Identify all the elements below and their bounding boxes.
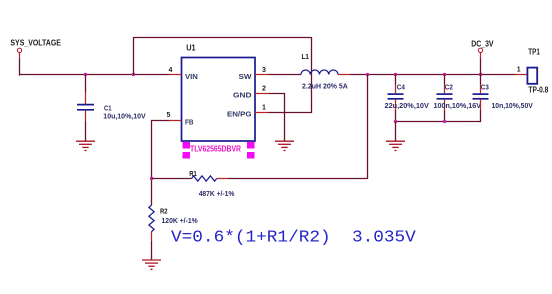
ground U1 GND: [275, 141, 294, 150]
pin label EN/PG: [227, 109, 252, 118]
wire DC_3V drop: [480, 59, 482, 75]
svg-text:1: 1: [517, 66, 521, 73]
wire EN/PG to riser: [269, 112, 313, 114]
svg-text:SW: SW: [239, 72, 253, 81]
SYS_VOLTAGE off-page terminal: [17, 48, 21, 58]
value label TP-0.8: [528, 86, 548, 95]
pin label FB: [185, 117, 194, 126]
svg-text:V=0.6*(1+R1/R2) 3.035V: V=0.6*(1+R1/R2) 3.035V: [171, 227, 416, 246]
svg-text:5: 5: [167, 112, 171, 119]
value label C2: [434, 83, 482, 110]
svg-text:120K +/-1%: 120K +/-1%: [162, 216, 198, 225]
wire GND pin to ground: [269, 94, 285, 142]
wire divider to R1: [152, 178, 192, 180]
label R2: [160, 207, 168, 216]
wire capacitor bottom bus: [396, 121, 482, 123]
wire C1 upper lead: [85, 75, 87, 105]
wire C2 upper lead: [444, 75, 446, 94]
wire SYS_VOLTAGE to VIN: [19, 74, 169, 76]
value label L1: [302, 82, 348, 91]
svg-text:U1: U1: [186, 44, 196, 53]
ground capacitor bus: [386, 141, 405, 150]
pin 1 stub EN/PG: [255, 112, 269, 114]
node junction C2 bottom: [443, 120, 446, 123]
DC_3V off-page terminal: [478, 48, 482, 58]
svg-text:100n,10%,16V: 100n,10%,16V: [434, 101, 482, 110]
value label C4: [385, 83, 429, 110]
wire R1 to feedback riser: [228, 178, 368, 180]
pin 4 stub VIN: [169, 74, 182, 76]
op-amp U1 body: [182, 58, 256, 142]
value label R1: [199, 189, 235, 198]
ground C1: [76, 141, 95, 150]
pin 2 stub GND: [255, 93, 269, 95]
pin number 2: [262, 85, 266, 92]
wire feedback riser: [367, 75, 369, 180]
wire C1 lower lead: [85, 111, 87, 141]
svg-text:C2: C2: [445, 83, 453, 92]
svg-text:C3: C3: [481, 83, 489, 92]
node SYS_VOLTAGE label: [10, 39, 61, 48]
node junction DC_3V tap: [479, 73, 482, 76]
capacitor C2: [437, 94, 453, 99]
wire C4 lower lead: [395, 100, 397, 122]
svg-text:C4: C4: [397, 83, 406, 92]
node DC_3V label: [471, 40, 494, 49]
wire L1 right stub: [338, 74, 350, 76]
wire C3 lower lead: [480, 100, 482, 122]
wire C3 upper lead: [480, 75, 482, 94]
footprint pad U1 top-left: [183, 142, 191, 149]
resistor R1: [192, 176, 217, 181]
node junction C4 bottom: [394, 120, 397, 123]
footprint pad U1 top-right: [247, 142, 255, 149]
node junction R1/R2: [150, 177, 153, 180]
node junction C1 tap: [84, 73, 87, 76]
svg-text:3: 3: [262, 67, 266, 74]
wire to TP1: [515, 74, 527, 76]
pin number 3: [262, 67, 266, 74]
wire riser VIN to top loop: [133, 37, 135, 75]
node junction R1 feedback tap: [366, 73, 369, 76]
svg-text:GND: GND: [233, 90, 252, 99]
label TP1: [528, 48, 540, 57]
svg-text:487K +/-1%: 487K +/-1%: [199, 189, 235, 198]
node junction C4 tap: [394, 73, 397, 76]
svg-text:SYS_VOLTAGE: SYS_VOLTAGE: [10, 39, 61, 48]
wire R2 lower stub: [151, 231, 153, 241]
wire bus to ground: [395, 122, 397, 142]
svg-text:TLV62565DBVR: TLV62565DBVR: [190, 145, 241, 154]
value label C3: [481, 83, 533, 110]
wire SW to L1: [269, 74, 302, 76]
footprint name TLV62565DBVR: [190, 145, 241, 154]
node junction top-loop tap: [132, 73, 135, 76]
capacitor C1: [77, 105, 94, 110]
svg-text:2.2uH 20% 5A: 2.2uH 20% 5A: [302, 82, 348, 91]
wire SYS_VOLTAGE vertical drop: [19, 59, 22, 76]
pin number 5: [167, 112, 171, 119]
svg-text:L1: L1: [302, 52, 309, 61]
svg-text:R2: R2: [160, 207, 168, 216]
wire output net: [350, 74, 515, 76]
svg-text:TP-0.8: TP-0.8: [528, 86, 548, 95]
pin number 1 TP1: [517, 66, 521, 73]
svg-text:TP1: TP1: [528, 48, 540, 57]
formula annotation: [171, 227, 416, 246]
label U1: [186, 44, 196, 53]
svg-text:10u,10%,10V: 10u,10%,10V: [103, 112, 145, 121]
wire R1 right stub: [217, 178, 228, 180]
wire R2 to ground: [151, 241, 153, 260]
pin 3 stub SW: [255, 74, 269, 76]
wire top loop down to EN/PG: [311, 37, 313, 113]
wire top loop horizontal: [133, 37, 312, 39]
svg-text:EN/PG: EN/PG: [227, 109, 252, 118]
value label C1: [103, 104, 145, 121]
value label R2: [162, 216, 198, 225]
capacitor C3: [473, 94, 489, 99]
pin label SW: [239, 72, 253, 81]
svg-text:22u,20%,10V: 22u,20%,10V: [385, 101, 429, 110]
test point TP1 body: [527, 68, 537, 84]
svg-text:10n,10%,50V: 10n,10%,50V: [492, 101, 533, 110]
pin number 1: [262, 104, 266, 111]
footprint pad U1 bottom-right: [247, 152, 255, 159]
svg-text:DC_3V: DC_3V: [471, 40, 494, 49]
svg-text:2: 2: [262, 85, 266, 92]
svg-text:VIN: VIN: [185, 72, 198, 81]
pin number 4: [169, 67, 173, 74]
capacitor C4: [388, 94, 404, 99]
pin 5 stub FB: [169, 120, 182, 122]
inductor L1: [301, 70, 338, 75]
node junction C2 tap: [443, 73, 446, 76]
svg-text:FB: FB: [185, 117, 194, 126]
footprint pad U1 bottom-left: [183, 152, 191, 159]
wire C2 lower lead: [444, 100, 446, 122]
label L1: [302, 52, 309, 61]
wire C4 upper lead: [395, 75, 397, 94]
pin label VIN: [185, 72, 198, 81]
resistor R2: [149, 205, 154, 231]
label R1: [189, 169, 197, 178]
wire FB to divider: [152, 121, 170, 206]
pin label GND: [233, 90, 252, 99]
svg-text:1: 1: [262, 104, 266, 111]
svg-text:4: 4: [169, 67, 173, 74]
ground R2: [142, 260, 161, 269]
